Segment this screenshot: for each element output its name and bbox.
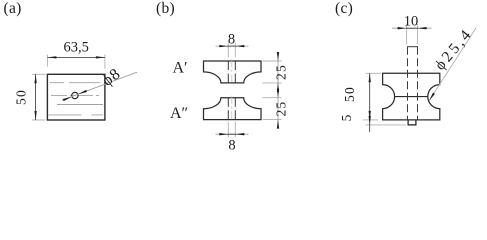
- hidden line 3: [48, 114, 103, 116]
- piece A' outline: [204, 61, 262, 83]
- dim 10 extension lines: [406, 24, 408, 44]
- leader arrow right: [78, 90, 87, 95]
- svg-text:5: 5: [339, 114, 354, 121]
- svg-text:A′: A′: [173, 60, 188, 77]
- dim 25 extension lines right: [263, 60, 282, 62]
- hidden slot top cap: [407, 46, 418, 48]
- plate outline: [47, 74, 105, 120]
- svg-text:25: 25: [274, 64, 289, 80]
- dim 50 arrows: [34, 74, 36, 83]
- svg-text:63,5: 63,5: [64, 40, 89, 56]
- svg-text:50: 50: [14, 89, 29, 105]
- dim 8 bottom extension lines: [227, 122, 229, 138]
- block outline with side notches: [383, 73, 440, 120]
- dim 5 extension line bottom: [366, 124, 407, 126]
- dim 25 arrows: [277, 52, 279, 61]
- dim 50 line: [35, 74, 37, 120]
- dim 8 bottom line: [216, 133, 249, 135]
- bottom tab: [408, 120, 416, 125]
- dim 63,5 extension lines: [46, 55, 48, 67]
- leader line for diameter: [62, 72, 137, 100]
- dim 10 arrows: [398, 27, 407, 29]
- piece A' centerline: [231, 59, 233, 85]
- svg-text:A″: A″: [170, 105, 188, 122]
- leader arrow left: [63, 96, 72, 101]
- dim 8 top extension lines: [227, 43, 229, 58]
- svg-text:25: 25: [274, 101, 289, 117]
- dim 63,5 line: [47, 56, 105, 58]
- leader arrow: [428, 93, 435, 102]
- svg-text:50: 50: [342, 86, 357, 102]
- parting line: [395, 96, 428, 98]
- svg-text:(a): (a): [4, 0, 22, 17]
- dim 50 extension line bottom: [363, 119, 378, 121]
- hidden line 1: [50, 82, 65, 84]
- dim 8 top arrows: [219, 45, 228, 47]
- svg-text:(b): (b): [156, 0, 175, 17]
- hole centerline horizontal: [51, 95, 99, 97]
- piece A'' outline: [204, 98, 262, 120]
- dim 25 line: [277, 53, 279, 128]
- dim 10 line: [392, 27, 432, 29]
- svg-text:ϕ25,4: ϕ25,4: [432, 25, 477, 74]
- dim 5 line: [369, 112, 371, 132]
- hidden slot left edge: [407, 47, 409, 120]
- piece A'' hole hidden lines: [227, 98, 229, 120]
- dim 8 bottom arrows: [219, 133, 228, 135]
- svg-text:(c): (c): [335, 0, 353, 17]
- dim 50 extension line top: [366, 72, 382, 74]
- svg-text:ϕ8: ϕ8: [99, 65, 124, 90]
- svg-text:8: 8: [228, 138, 235, 154]
- hidden line 2: [57, 104, 103, 106]
- piece A'' centerline: [231, 96, 233, 122]
- dim 8 top line: [216, 45, 249, 47]
- dim 5 arrow up outside: [369, 116, 371, 125]
- hidden slot right edge: [417, 47, 419, 120]
- dim 63,5 arrows: [47, 56, 56, 58]
- svg-text:8: 8: [228, 32, 235, 48]
- hole circle: [72, 92, 78, 98]
- leader line diameter 25,4: [429, 28, 476, 101]
- piece A' hole hidden lines: [227, 61, 229, 83]
- dim 50 extension lines: [32, 73, 46, 75]
- svg-text:10: 10: [404, 14, 419, 30]
- dim 50 arrows: [369, 73, 371, 82]
- dim 50 line: [369, 73, 371, 120]
